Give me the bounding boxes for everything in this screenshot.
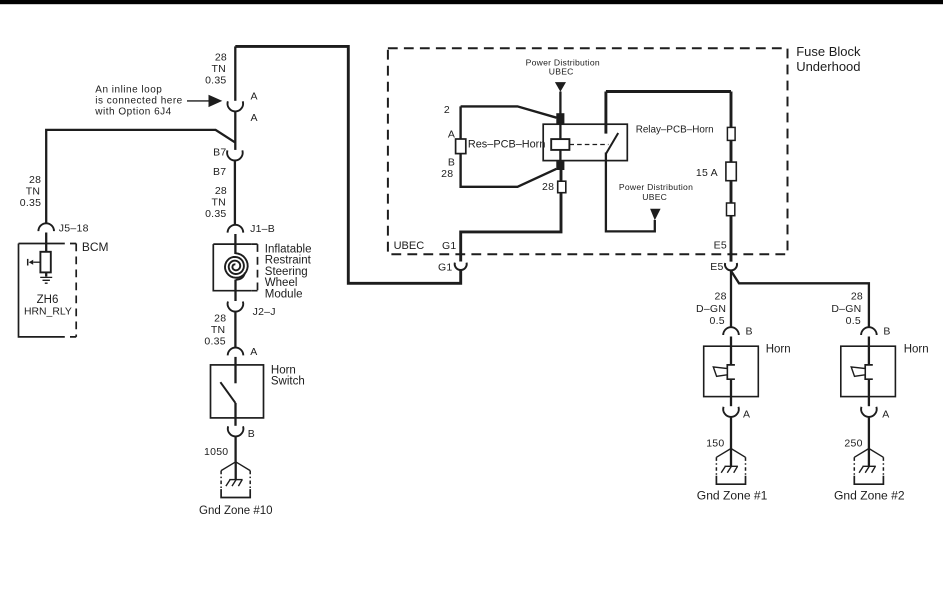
svg-text:A: A: [251, 112, 258, 124]
svg-text:250: 250: [844, 437, 862, 449]
svg-text:Relay–PCB–Horn: Relay–PCB–Horn: [636, 124, 714, 135]
svg-text:28: 28: [29, 174, 41, 186]
svg-text:0.35: 0.35: [205, 75, 226, 87]
svg-text:Gnd Zone #2: Gnd Zone #2: [834, 489, 905, 503]
svg-text:UBEC: UBEC: [394, 240, 425, 252]
svg-text:Horn: Horn: [766, 344, 791, 356]
svg-text:150: 150: [706, 437, 724, 449]
svg-text:HRN_RLY: HRN_RLY: [24, 307, 72, 318]
svg-text:B7: B7: [213, 146, 226, 158]
svg-text:TN: TN: [26, 185, 41, 197]
svg-text:A: A: [882, 408, 889, 420]
svg-text:Switch: Switch: [271, 376, 305, 388]
svg-text:A: A: [251, 90, 258, 102]
svg-text:28: 28: [441, 168, 453, 180]
svg-text:is connected here: is connected here: [95, 95, 182, 106]
svg-text:ZH6: ZH6: [37, 294, 59, 306]
svg-text:2: 2: [444, 104, 450, 116]
svg-text:G1: G1: [438, 261, 453, 273]
svg-text:J5–18: J5–18: [59, 223, 89, 235]
svg-text:E5: E5: [710, 261, 723, 273]
svg-text:B: B: [448, 156, 455, 168]
svg-text:28: 28: [851, 290, 863, 302]
svg-text:Steering: Steering: [265, 266, 308, 278]
svg-text:28: 28: [715, 290, 727, 302]
svg-text:An inline loop: An inline loop: [95, 84, 162, 95]
svg-text:Gnd Zone #10: Gnd Zone #10: [199, 505, 273, 517]
svg-text:Underhood: Underhood: [796, 59, 860, 74]
svg-text:B: B: [248, 428, 255, 440]
svg-text:A: A: [448, 128, 455, 140]
svg-text:TN: TN: [212, 196, 227, 208]
svg-text:Horn: Horn: [904, 344, 929, 356]
svg-text:UBEC: UBEC: [549, 67, 574, 77]
svg-text:with Option 6J4: with Option 6J4: [94, 106, 171, 117]
svg-text:28: 28: [215, 185, 227, 197]
svg-text:E5: E5: [714, 240, 727, 252]
svg-text:0.35: 0.35: [204, 336, 225, 348]
svg-text:Res–PCB–Horn: Res–PCB–Horn: [468, 138, 545, 150]
svg-text:28: 28: [542, 181, 554, 193]
svg-text:28: 28: [214, 313, 226, 325]
svg-text:0.35: 0.35: [20, 197, 41, 209]
svg-text:B: B: [746, 326, 753, 338]
svg-text:TN: TN: [211, 324, 226, 336]
svg-text:0.35: 0.35: [205, 208, 226, 220]
svg-text:Fuse Block: Fuse Block: [796, 44, 861, 59]
svg-text:A: A: [743, 408, 750, 420]
svg-text:0.5: 0.5: [710, 315, 725, 327]
svg-text:Gnd Zone #1: Gnd Zone #1: [697, 489, 768, 503]
svg-text:Wheel: Wheel: [265, 277, 298, 289]
svg-text:G1: G1: [442, 240, 457, 252]
svg-text:J2–J: J2–J: [253, 306, 276, 318]
svg-text:0.5: 0.5: [846, 315, 861, 327]
svg-text:J1–B: J1–B: [250, 223, 275, 235]
svg-text:1050: 1050: [204, 446, 228, 458]
svg-text:15 A: 15 A: [696, 167, 718, 179]
svg-text:TN: TN: [212, 63, 227, 75]
svg-text:D–GN: D–GN: [831, 303, 861, 315]
svg-text:B: B: [883, 326, 890, 338]
svg-text:UBEC: UBEC: [642, 192, 667, 202]
svg-text:Module: Module: [265, 288, 303, 300]
svg-text:A: A: [250, 346, 257, 358]
svg-text:B7: B7: [213, 166, 226, 178]
svg-text:D–GN: D–GN: [696, 303, 726, 315]
svg-text:BCM: BCM: [82, 240, 109, 254]
svg-text:28: 28: [215, 52, 227, 64]
svg-text:Restraint: Restraint: [265, 255, 312, 267]
svg-text:Power Distribution: Power Distribution: [619, 182, 693, 192]
